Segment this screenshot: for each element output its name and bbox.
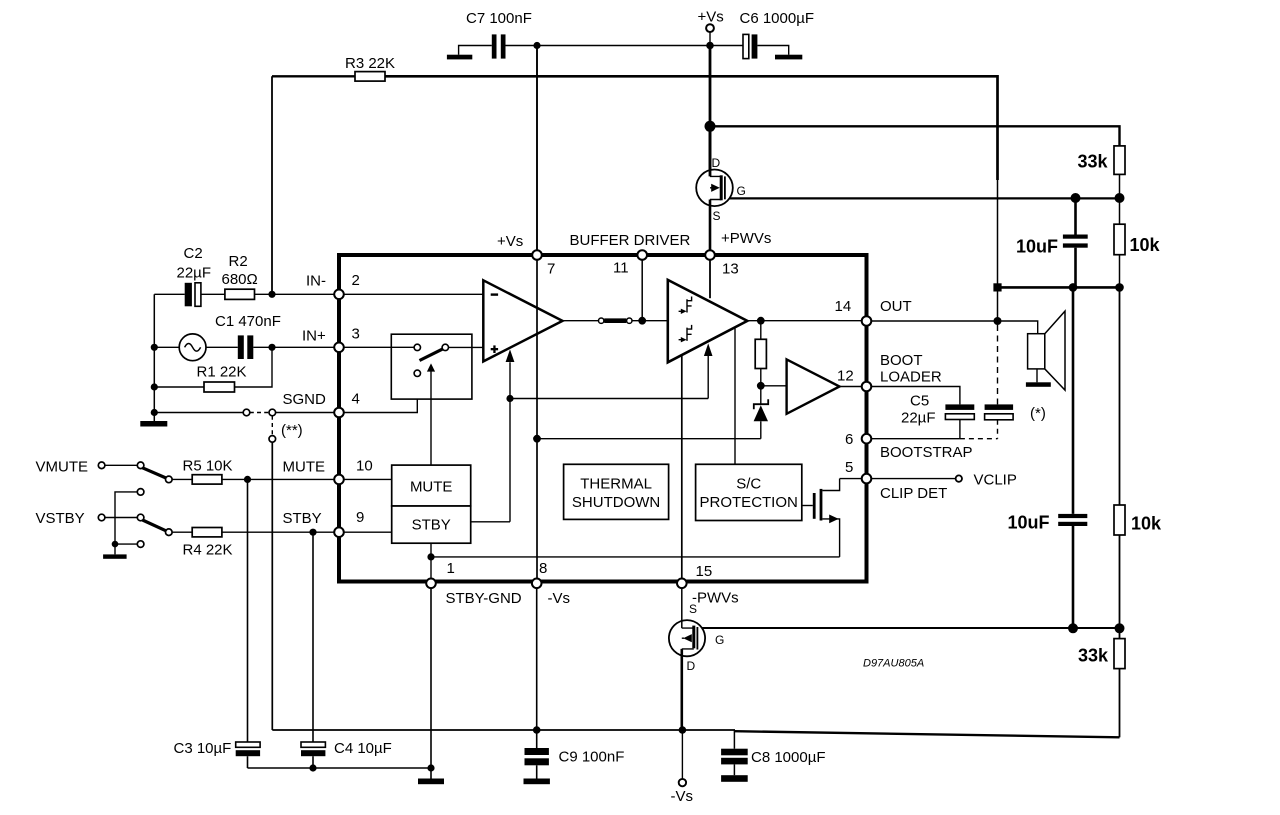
- svg-text:STBY-GND: STBY-GND: [446, 590, 522, 607]
- capacitor 10uF upper: [1074, 198, 1077, 235]
- svg-text:C7 100nF: C7 100nF: [466, 10, 532, 27]
- resistor R1 22K: [154, 386, 204, 388]
- pin 11: [637, 250, 647, 260]
- terminal (**) on SGND: [269, 409, 276, 416]
- wire -Vs rail: [272, 729, 735, 731]
- capacitor C6 1000uF: [743, 34, 749, 58]
- op-amp U3 boot loader: [761, 385, 787, 387]
- op-amp U1 input stage: [339, 293, 483, 295]
- svg-text:15: 15: [696, 563, 713, 580]
- op-amp U2 buffer driver: [668, 280, 748, 362]
- resistor R3 22K: [272, 75, 355, 77]
- node 10k/33k lower: [1115, 623, 1125, 633]
- node 33k/10k: [1115, 193, 1125, 203]
- resistor R5 10K: [172, 478, 339, 480]
- switch mute: [137, 462, 144, 469]
- node IN-: [268, 291, 275, 298]
- pin 1: [426, 579, 436, 589]
- wire input ground column: [153, 294, 155, 421]
- pin 8: [532, 579, 542, 589]
- wire C7 to +Vs: [506, 45, 744, 47]
- svg-text:D97AU805A: D97AU805A: [863, 658, 924, 670]
- svg-text:5: 5: [845, 459, 853, 476]
- ground (C6 right): [775, 55, 802, 60]
- wire pin7 to pin8 internal rail: [536, 260, 538, 579]
- wire gate Q2: [697, 627, 1119, 629]
- resistor R2 680: [225, 289, 255, 299]
- svg-text:R5 10K: R5 10K: [183, 458, 233, 475]
- svg-text:C5: C5: [910, 393, 929, 410]
- svg-text:10k: 10k: [1130, 235, 1161, 255]
- zener diode: [760, 386, 762, 404]
- svg-text:SHUTDOWN: SHUTDOWN: [572, 494, 660, 511]
- resistor 33k upper: [1114, 146, 1125, 175]
- pin 9: [334, 527, 344, 537]
- capacitor C2 22uF: [185, 283, 192, 307]
- svg-text:LOADER: LOADER: [880, 369, 942, 386]
- svg-text:C2: C2: [184, 245, 203, 262]
- svg-text:(*): (*): [1030, 405, 1046, 422]
- pin 15: [677, 579, 687, 589]
- wire pin7 riser: [536, 46, 538, 251]
- capacitor 10uF lower: [1072, 287, 1075, 514]
- svg-text:IN-: IN-: [306, 273, 326, 290]
- svg-text:C8 1000µF: C8 1000µF: [751, 749, 826, 766]
- svg-text:11: 11: [613, 260, 629, 277]
- pin 14: [862, 316, 872, 326]
- wire pin6 bootstrap: [871, 438, 960, 440]
- svg-text:CLIP DET: CLIP DET: [880, 485, 947, 502]
- wire out-reference rail: [998, 286, 1120, 289]
- wire pin1 down: [430, 588, 432, 778]
- svg-text:10: 10: [356, 458, 373, 475]
- svg-text:C6 1000µF: C6 1000µF: [740, 10, 815, 27]
- node +Vs/33k rail: [705, 121, 716, 132]
- node +Vs: [706, 42, 714, 50]
- wire C6 to ground: [757, 46, 788, 55]
- node pin1/SC line: [427, 553, 434, 560]
- THERMAL SHUTDOWN box: [564, 464, 669, 519]
- svg-text:-PWVs: -PWVs: [692, 590, 739, 607]
- node gate/10uF: [1071, 193, 1081, 203]
- wire bias to buffer: [510, 398, 708, 400]
- node C9/-Vs rail: [533, 726, 541, 734]
- svg-text:9: 9: [356, 509, 364, 526]
- pin 6: [862, 434, 872, 444]
- svg-text:S: S: [689, 602, 697, 616]
- ground (STBY-GND): [418, 779, 444, 785]
- capacitor C9 100nF: [536, 730, 538, 748]
- capacitor C5 22uF: [945, 404, 974, 410]
- switch ground bracket: [137, 489, 144, 496]
- capacitor (*) optional: [985, 404, 1014, 410]
- svg-text:8: 8: [539, 560, 547, 577]
- svg-text:+PWVs: +PWVs: [721, 230, 771, 247]
- wire +Vs down to MOSFET Q1 drain: [709, 46, 712, 173]
- svg-text:33k: 33k: [1078, 646, 1109, 666]
- svg-text:R4 22K: R4 22K: [183, 542, 233, 559]
- wire pin12 to C5: [871, 387, 960, 405]
- svg-text:+Vs: +Vs: [698, 9, 724, 26]
- wire pin4 to switch: [344, 377, 417, 413]
- capacitor C7 100nF: [492, 34, 497, 58]
- wire STBY box to pin1: [430, 543, 432, 578]
- STBY box: [392, 506, 471, 543]
- pin 10: [334, 475, 344, 485]
- bias arrow from STBY: [471, 362, 510, 522]
- signal source: [154, 346, 238, 348]
- MOSFET Q1 body: [696, 170, 733, 207]
- buffer bias arrow: [707, 356, 709, 399]
- ground (speaker): [1026, 382, 1051, 387]
- wire pin9 to STBY box: [344, 531, 392, 533]
- wire zener to internal rail: [537, 438, 761, 440]
- svg-text:C9 100nF: C9 100nF: [559, 749, 625, 766]
- svg-text:22µF: 22µF: [177, 265, 212, 282]
- svg-text:D: D: [687, 659, 696, 673]
- wire SGND: [154, 412, 339, 414]
- wire OUT: [871, 321, 1037, 334]
- svg-text:(**): (**): [281, 422, 303, 439]
- svg-text:R3 22K: R3 22K: [345, 55, 395, 72]
- wire C3/C4 ground bus: [248, 767, 432, 769]
- jumper link pin11: [563, 320, 599, 322]
- MUTE box: [392, 465, 471, 506]
- svg-text:+Vs: +Vs: [497, 233, 523, 250]
- terminal +Vs: [706, 24, 714, 32]
- svg-text:THERMAL: THERMAL: [580, 476, 652, 493]
- capacitor C1 470nF: [238, 335, 244, 359]
- svg-text:1: 1: [447, 560, 455, 577]
- wire pin8 down: [536, 588, 538, 730]
- internal resistor: [760, 321, 762, 340]
- svg-text:10k: 10k: [1131, 514, 1162, 534]
- svg-text:12: 12: [837, 368, 854, 385]
- svg-text:IN+: IN+: [302, 328, 326, 345]
- svg-text:BOOT: BOOT: [880, 352, 923, 369]
- wire R3 to IN-: [271, 76, 273, 294]
- wire S/C source to pin1 column: [431, 556, 840, 558]
- resistor R4 22K: [172, 531, 339, 533]
- speaker: [1028, 334, 1045, 369]
- svg-text:G: G: [737, 184, 746, 198]
- ground (input): [140, 421, 167, 427]
- pin 4: [334, 408, 344, 418]
- node pin11: [638, 317, 646, 325]
- capacitor C8 1000uF: [733, 730, 735, 749]
- wire gate Q1: [725, 197, 1120, 199]
- svg-text:PROTECTION: PROTECTION: [700, 494, 798, 511]
- svg-text:33k: 33k: [1078, 152, 1109, 172]
- node OUT/feedback: [994, 317, 1002, 325]
- node C7/pin7: [533, 42, 540, 49]
- MOSFET Q2 body: [669, 620, 705, 656]
- mute control arrow: [430, 371, 432, 465]
- pin 13: [705, 250, 715, 260]
- svg-text:C3 10µF: C3 10µF: [174, 740, 232, 757]
- node Q2 drain/-Vs rail: [679, 726, 687, 734]
- wire IN+ row: [253, 346, 339, 348]
- svg-text:MUTE: MUTE: [410, 479, 453, 496]
- svg-text:D: D: [712, 156, 721, 170]
- svg-text:4: 4: [352, 391, 360, 408]
- svg-text:MUTE: MUTE: [283, 459, 326, 476]
- label U1 plus: [491, 348, 498, 350]
- pin 5: [862, 474, 872, 484]
- svg-text:C4 10µF: C4 10µF: [334, 740, 392, 757]
- svg-text:G: G: [715, 633, 724, 647]
- resistor 33k lower: [1119, 628, 1121, 638]
- ground (C7 left): [459, 46, 492, 55]
- wire 33k to -Vs rail: [735, 731, 1120, 737]
- svg-text:S/C: S/C: [736, 476, 761, 493]
- wire pin10 to MUTE box: [344, 478, 392, 480]
- wire U2 output: [747, 320, 866, 322]
- svg-text:-Vs: -Vs: [548, 590, 571, 607]
- svg-text:13: 13: [722, 261, 739, 278]
- pin 12: [862, 382, 872, 392]
- ground (switch): [103, 554, 127, 558]
- terminal -Vs: [681, 730, 683, 779]
- wire pin5 clip det: [871, 478, 955, 480]
- node pin1/C3C4: [427, 764, 434, 771]
- pin 2: [334, 290, 344, 300]
- svg-text:SGND: SGND: [283, 391, 327, 408]
- mosfet icon 2: [679, 325, 692, 341]
- svg-text:BUFFER DRIVER: BUFFER DRIVER: [570, 232, 691, 249]
- svg-text:680Ω: 680Ω: [222, 271, 258, 288]
- svg-text:STBY: STBY: [412, 517, 451, 534]
- svg-text:2: 2: [352, 272, 360, 289]
- wire R3 feedback to OUT: [385, 75, 998, 78]
- wire dashed OUT to RC cell: [997, 325, 999, 404]
- ground (C9): [524, 779, 550, 785]
- svg-text:R2: R2: [229, 253, 248, 270]
- pin 3: [334, 343, 344, 353]
- svg-text:BOOTSTRAP: BOOTSTRAP: [880, 444, 973, 461]
- svg-text:VSTBY: VSTBY: [36, 510, 85, 527]
- mosfet icon 1: [679, 297, 692, 313]
- terminal VMUTE: [98, 462, 105, 469]
- resistor 10k lower: [1119, 287, 1121, 505]
- ground (C8): [721, 775, 748, 782]
- svg-text:22µF: 22µF: [901, 410, 936, 427]
- svg-text:STBY: STBY: [283, 510, 322, 527]
- capacitor C3 10uF: [244, 476, 251, 483]
- terminal VCLIP: [956, 475, 962, 481]
- terminal (**) lower: [269, 436, 276, 443]
- transistor clip detect: [802, 505, 813, 507]
- svg-text:OUT: OUT: [880, 298, 912, 315]
- resistor 10k upper: [1119, 198, 1121, 224]
- capacitor C4 10uF: [309, 529, 316, 536]
- wire +Vs rail to 33k top: [710, 126, 1120, 146]
- switch stby: [137, 514, 144, 521]
- svg-text:S: S: [713, 209, 721, 223]
- mute switch box: [391, 334, 472, 399]
- svg-text:14: 14: [835, 298, 852, 315]
- wire SGND column: [271, 442, 273, 730]
- S/C PROTECTION box: [696, 464, 802, 520]
- node 10uF/gate lower: [1068, 623, 1078, 633]
- svg-text:7: 7: [547, 261, 555, 278]
- wire IN- row: [154, 293, 339, 295]
- svg-text:6: 6: [845, 431, 853, 448]
- svg-text:10uF: 10uF: [1016, 237, 1058, 257]
- svg-text:10uF: 10uF: [1008, 513, 1050, 533]
- svg-text:R1 22K: R1 22K: [197, 364, 247, 381]
- svg-text:VMUTE: VMUTE: [36, 459, 89, 476]
- svg-text:3: 3: [352, 326, 360, 343]
- svg-text:VCLIP: VCLIP: [974, 472, 1017, 489]
- svg-text:C1 470nF: C1 470nF: [215, 313, 281, 330]
- svg-text:-Vs: -Vs: [671, 788, 694, 805]
- node IN+: [268, 344, 275, 351]
- IC block TDA7294 outline: [339, 255, 867, 582]
- terminal VSTBY: [98, 514, 105, 521]
- pin 7: [532, 250, 542, 260]
- label U1 minus: [491, 293, 498, 295]
